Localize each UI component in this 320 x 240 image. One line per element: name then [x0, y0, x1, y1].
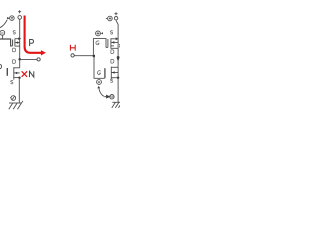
PMOS Q3 source lead [111, 38, 116, 40]
label S of Q1 [13, 31, 16, 34]
PMOS Q3 gate bar [107, 39, 109, 47]
ground hatches right [112, 103, 116, 108]
PMOS Q1 gate bar [12, 40, 14, 46]
annotation bubble B2 (charge at gate) [96, 31, 101, 36]
supply plus sign [18, 10, 21, 13]
annotation C2 arrowhead [104, 95, 109, 98]
red mark at crop edge [119, 44, 120, 45]
annotation B1 arrowhead [106, 18, 107, 20]
annotation bubble C1 [97, 80, 102, 85]
NMOS Q2 channel [13, 67, 15, 79]
NMOS Q2 drain lead [14, 67, 20, 69]
label D of Q4 [111, 59, 114, 63]
supply plus sign right [115, 12, 118, 15]
red X blocked NMOS [22, 71, 28, 77]
NMOS Q4 gate bar [104, 68, 106, 78]
annotation bubble A2 [0, 30, 5, 35]
label S of Q3 [110, 31, 113, 34]
PMOS Q3 source arrowhead [116, 37, 119, 40]
annotation bubble A1 [10, 16, 15, 21]
PMOS Q1 source lead [15, 38, 20, 40]
PMOS Q3 bulk lead [111, 41, 118, 43]
junction dot Q2 source [18, 77, 20, 79]
PMOS Q1 bulk arrowhead [16, 41, 19, 44]
annotation bubble C2 [110, 95, 114, 99]
supply terminal [18, 16, 22, 20]
ground hatches left [9, 103, 13, 109]
input wire [74, 55, 93, 57]
annotation C1 up arrowhead [97, 86, 100, 89]
label S of Q2 [11, 80, 14, 83]
annotation B2 arrowhead [101, 32, 103, 34]
wire supply to PMOS Q1 [19, 19, 21, 38]
label D of Q2 [13, 60, 16, 64]
gate wire NMOS Q4 [94, 56, 105, 78]
annotation leader arc C [99, 89, 104, 97]
supply terminal right [114, 17, 117, 20]
label N [30, 71, 34, 77]
PMOS Q1 drain lead [15, 45, 20, 47]
red conduction path wire (supply through PMOS Q1 to output) [25, 16, 42, 53]
NMOS Q4 drain lead [111, 66, 118, 68]
wire Q2 source to ground [18, 78, 20, 103]
right output junction dot [117, 56, 120, 59]
junction dot Q4 source [117, 77, 119, 79]
gate input wire Q1 [0, 39, 13, 46]
wire output node to NMOS Q2 [19, 59, 21, 68]
label D of Q3 [111, 50, 114, 54]
red arrowhead [41, 50, 46, 55]
label S of Q4 [110, 79, 113, 82]
wire supply right (slant to rail) [116, 20, 118, 24]
PMOS Q3 drain wire [111, 47, 118, 48]
input junction blob [93, 55, 95, 57]
NMOS Q2 bulk lead [14, 72, 20, 74]
annotation A1 leader arc [0, 20, 7, 28]
NMOS Q2 bulk arrowhead [16, 72, 19, 75]
NMOS Q2 gate bar [6, 68, 8, 76]
label P [30, 40, 34, 47]
NMOS Q4 channel [110, 67, 112, 80]
PMOS Q3 bulk arrowhead [112, 41, 115, 44]
NMOS Q2 source lead [14, 77, 20, 79]
annotation bubble A4 (cropped at left edge, NMOS Q2 gate) [0, 64, 2, 69]
input label H [70, 45, 75, 51]
NMOS Q4 source lead [111, 77, 118, 79]
ground tick left [22, 101, 23, 103]
current arrowhead down on rail [117, 59, 120, 62]
PMOS Q3 bottom lead [111, 45, 114, 47]
gate nub Q3 [106, 46, 108, 48]
output wire [20, 58, 37, 60]
PMOS Q1 source arrowhead [18, 37, 21, 40]
label D of Q1 [13, 48, 16, 52]
annotation A2 tick [2, 35, 4, 39]
NMOS Q4 bulk lead [111, 72, 118, 74]
label G of Q3 [96, 41, 99, 45]
input terminal [71, 54, 74, 57]
PMOS Q1 channel [14, 39, 16, 47]
gate wire box PMOS Q3 [93, 39, 106, 55]
annotation bubble B1 [108, 16, 113, 21]
PMOS Q3 channel [110, 38, 112, 47]
output junction dot [18, 58, 21, 61]
wire Q1 drain to output node [19, 39, 21, 60]
label G of Q4 [97, 71, 100, 75]
output terminal [37, 58, 40, 61]
NMOS Q4 bulk arrowhead [112, 71, 115, 74]
ground bar right [112, 101, 120, 103]
annotation A1 arrowhead [7, 17, 10, 20]
right rail [117, 24, 119, 102]
annotation bubble A3 [11, 96, 16, 101]
PMOS Q1 bulk lead [15, 42, 20, 44]
ground bar left [9, 102, 22, 104]
